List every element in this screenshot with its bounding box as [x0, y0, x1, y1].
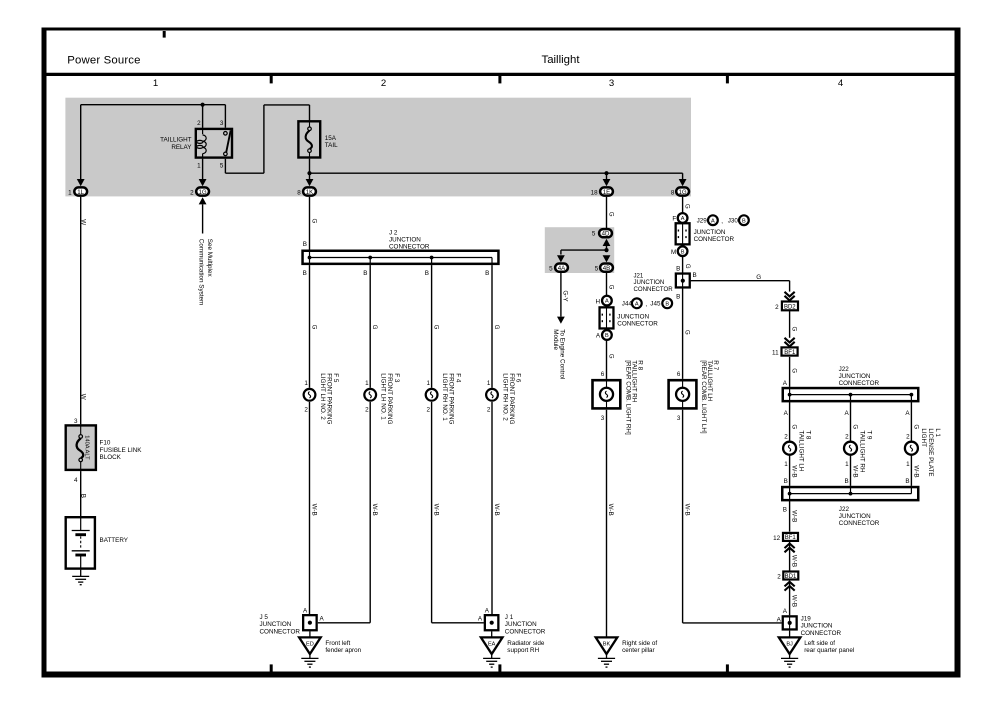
pin 6 label of R8	[601, 371, 605, 378]
svg-text:BJ: BJ	[786, 642, 793, 648]
svg-text:B: B	[676, 294, 680, 301]
fusible link element	[77, 424, 84, 471]
wire: BF1 to J22	[789, 357, 791, 387]
svg-text:G: G	[310, 219, 317, 224]
label: wire color G below 4B	[607, 285, 614, 290]
label: pin A under J22 at T9	[844, 410, 849, 417]
junction connector J19 box	[783, 615, 797, 630]
svg-text:CONNECTOR: CONNECTOR	[617, 321, 658, 328]
svg-text:See Multiplex: See Multiplex	[206, 239, 213, 278]
svg-text:1G: 1G	[679, 189, 687, 196]
label: J21 JUNCTION CONNECTOR	[634, 272, 674, 293]
svg-text:18: 18	[591, 189, 599, 196]
svg-text:140A ALT: 140A ALT	[84, 435, 90, 460]
label: J5 pin A right	[320, 616, 325, 623]
svg-text:M: M	[671, 249, 676, 256]
pin 1 label of F 3	[365, 380, 369, 387]
svg-text:15A: 15A	[325, 135, 337, 142]
svg-text:fender apron: fender apron	[325, 647, 361, 654]
svg-text:B: B	[303, 270, 307, 277]
label: J1 pin A top	[485, 607, 490, 614]
label: wire color B under J2 at x=492.0	[485, 270, 489, 277]
wire: J2 to front parking light F 4	[431, 265, 433, 388]
relay: TAILLIGHT RELAY box	[196, 129, 232, 158]
svg-text:,: ,	[721, 218, 723, 225]
svg-text:Taillight: Taillight	[542, 54, 581, 66]
label: wire color G on horizontal	[756, 274, 761, 281]
svg-text:W: W	[79, 394, 86, 400]
svg-text:CONNECTOR: CONNECTOR	[801, 630, 842, 637]
svg-text:JUNCTION: JUNCTION	[505, 621, 537, 628]
svg-text:B: B	[905, 478, 909, 485]
pin 2 label of F 3	[365, 407, 369, 414]
lamp F3 front parking light	[364, 389, 376, 401]
pin 3 label of R8	[601, 415, 605, 422]
label: wire color W-B below lower J22	[790, 510, 797, 522]
svg-text:2: 2	[365, 407, 369, 414]
wire: drop to connector 1E	[603, 173, 611, 186]
svg-text:4D: 4D	[602, 230, 610, 237]
svg-text:1: 1	[365, 380, 369, 387]
label: wire color W-B of R7	[683, 504, 690, 516]
connector BD1 pin 2	[777, 572, 798, 581]
connector 4D pin 5	[592, 229, 612, 238]
svg-text:3: 3	[220, 120, 224, 127]
svg-text:B: B	[844, 478, 848, 485]
lamp F4 front parking light	[426, 389, 438, 401]
svg-text:2: 2	[784, 433, 788, 440]
svg-text:2: 2	[777, 574, 781, 581]
label: L1 text	[920, 428, 941, 476]
battery symbol	[72, 516, 90, 570]
wire: 1K to J2 junction connector	[309, 197, 311, 250]
label: J19 pin A left	[777, 616, 782, 623]
node: junction dot below fuse	[307, 171, 311, 175]
pin 1 label of T8	[784, 461, 788, 468]
svg-text:B: B	[79, 494, 86, 498]
svg-text:J30: J30	[728, 218, 739, 225]
lamp R7 taillight LH box	[669, 380, 697, 408]
label: pin B above lower J22 at T8	[784, 478, 788, 485]
lamp F5 front parking light	[304, 389, 316, 401]
svg-text:W-B: W-B	[790, 510, 797, 522]
svg-text:JUNCTION: JUNCTION	[694, 229, 726, 236]
svg-text:G: G	[371, 325, 378, 330]
wire: J1 to ground	[491, 631, 493, 637]
label: pin B above lower J22 at T9	[844, 478, 848, 485]
svg-text:1G: 1G	[199, 189, 207, 196]
wire: into 4B	[603, 255, 611, 262]
wire: relay pin 3 feed	[224, 105, 226, 128]
svg-text:H: H	[596, 298, 601, 305]
label: wire color G at L1	[912, 424, 919, 429]
svg-text:1: 1	[153, 78, 158, 89]
svg-text:8: 8	[297, 189, 301, 196]
svg-text:W-B: W-B	[683, 504, 690, 516]
label: 140A ALT rotated	[84, 435, 90, 460]
svg-text:Right side of: Right side of	[622, 640, 657, 647]
label: R 7 TAILLIGHT LH REAR COMB LIGHT LH	[700, 360, 719, 434]
svg-text:W-B: W-B	[790, 595, 797, 607]
label: wire color W-B at x=492.0	[493, 504, 500, 516]
svg-text:G: G	[607, 354, 614, 359]
svg-text:LIGHT LH NO. 1: LIGHT LH NO. 1	[380, 373, 387, 420]
svg-text:5: 5	[220, 163, 224, 170]
label: F 4 FRONT PARKING LIGHT RH NO. 1	[441, 373, 461, 424]
label: wire color B under J2 at x=431.6	[425, 270, 429, 277]
svg-text:FUSIBLE LINK: FUSIBLE LINK	[100, 447, 143, 454]
svg-text:Radiator side: Radiator side	[507, 640, 545, 647]
svg-text:G: G	[493, 325, 500, 330]
pin 1 label of L1	[906, 461, 910, 468]
node: J22 lower dot 2	[849, 492, 853, 496]
svg-text:B: B	[783, 506, 787, 513]
label: wire color B	[79, 494, 86, 498]
pin 2 label of F 6	[487, 407, 491, 414]
connector circle A pin H	[596, 296, 612, 306]
label: wire color G below BD2	[791, 327, 798, 332]
pin 2 label	[197, 120, 201, 127]
label: wire color G above 4D	[607, 212, 614, 217]
label: wire color G at x=370.2	[371, 325, 378, 330]
svg-text:BATTERY: BATTERY	[100, 537, 129, 544]
label: 15A TAIL	[325, 135, 338, 149]
label: J 2 JUNCTION CONNECTOR	[389, 229, 430, 250]
svg-text:5: 5	[549, 265, 553, 272]
svg-text:B: B	[742, 218, 746, 224]
svg-text:J22: J22	[839, 506, 850, 513]
svg-text:J 5: J 5	[260, 614, 269, 621]
ground EA	[481, 637, 503, 667]
connector 1L pin 1	[68, 187, 87, 196]
pin 2 label of L1	[906, 433, 910, 440]
wire: R7 down and across to J19	[683, 410, 782, 623]
label: pin A under J22 at L1	[905, 410, 910, 417]
svg-text:4: 4	[74, 477, 78, 484]
label: JUNCTION CONNECTOR for J29	[694, 229, 735, 243]
svg-text:5: 5	[595, 265, 599, 272]
label: pin B below lower J22	[783, 506, 787, 513]
wire: J21 across to BD2 drop	[691, 281, 790, 292]
label: JUNCTION CONNECTOR for J44	[617, 313, 658, 327]
label: J1 pin A left	[478, 616, 483, 623]
svg-text:G: G	[756, 274, 761, 281]
svg-text:CONNECTOR: CONNECTOR	[839, 380, 880, 387]
wire: lamp T9 to lower J22	[850, 455, 852, 486]
svg-text:Communication System: Communication System	[197, 239, 204, 305]
label: wire color W-B at T9	[851, 465, 858, 477]
wire: F3 down and across to J5	[318, 402, 370, 623]
svg-text:CONNECTOR: CONNECTOR	[694, 236, 735, 243]
svg-text:F10: F10	[100, 439, 111, 446]
svg-text:J 1: J 1	[505, 614, 514, 621]
svg-text:1: 1	[845, 461, 849, 468]
wire: relay pin5 to fuse routing	[225, 105, 309, 173]
label: J22 JUNCTION CONNECTOR upper	[839, 366, 880, 387]
wire: BF1 to BD1 with up chevrons	[785, 542, 795, 571]
label: See Multiplex Communication System	[197, 239, 213, 305]
svg-text:2: 2	[426, 407, 430, 414]
wire: F6 down to J1	[491, 402, 493, 614]
label: wire color W lower	[79, 394, 86, 400]
wire: 1E to 4D	[606, 197, 608, 228]
connector circle B pin A	[596, 330, 612, 340]
svg-text:3: 3	[601, 415, 605, 422]
svg-text:J22: J22	[839, 366, 850, 373]
svg-text:A: A	[711, 218, 715, 224]
ground ED	[299, 637, 321, 667]
label: F 5 FRONT PARKING LIGHT LH NO. 2	[319, 373, 339, 424]
svg-text:JUNCTION: JUNCTION	[389, 237, 421, 244]
wire: chevrons into BF1	[785, 338, 795, 347]
pin 3 label	[220, 120, 224, 127]
pin 6 label of R7	[677, 371, 681, 378]
junction connector J1 box	[485, 615, 499, 630]
lamp T9	[844, 442, 857, 455]
label: wire color G at T8	[791, 424, 798, 429]
label: wire color W-B at L1	[912, 465, 919, 477]
connector BD2 pin 2	[775, 302, 798, 311]
svg-text:A: A	[681, 216, 685, 222]
svg-text:B: B	[485, 270, 489, 277]
wire: relay pin1 to connector 1G	[199, 159, 207, 186]
label: wire color W-B of R8	[607, 504, 614, 516]
ground: battery ground	[72, 570, 89, 585]
svg-text:LIGHT RH NO. 1: LIGHT RH NO. 1	[441, 373, 448, 421]
node: J22 upper dot 2	[849, 393, 853, 397]
label: wire color G above J21 rotated	[684, 264, 691, 269]
svg-text:W-B: W-B	[790, 555, 797, 567]
label: wire color B above J21	[676, 265, 680, 272]
label: pin A above J19	[783, 608, 788, 615]
wire: J29 to J21	[682, 257, 684, 273]
label: J44 A , J45 B references	[622, 298, 672, 308]
svg-text:support RH: support RH	[507, 647, 539, 654]
connector 4A pin 5	[549, 264, 568, 273]
label: wire color W-B above J19	[790, 595, 797, 607]
wire: J22 to lamp T9	[850, 402, 852, 441]
svg-text:G-Y: G-Y	[562, 290, 569, 302]
wire: fusible link to battery	[80, 471, 82, 516]
label: wire color B under J2 at x=370.2	[363, 270, 367, 277]
junction connector J22 lower box	[782, 486, 918, 502]
connector 1K pin 8	[297, 187, 316, 196]
wire: J2 to front parking light F 6	[491, 265, 493, 388]
lamp T8	[783, 442, 796, 455]
svg-text:F: F	[672, 216, 676, 223]
wire: node to 4D with up arrow	[603, 239, 611, 250]
pin 3 label of R7	[677, 415, 681, 422]
label: wire color G below 1G	[684, 204, 691, 209]
svg-text:1: 1	[426, 380, 430, 387]
label: J29 A , J30 B references	[697, 215, 749, 225]
label: Left side of rear quarter panel	[804, 640, 854, 654]
svg-text:1: 1	[304, 380, 308, 387]
svg-text:BF1: BF1	[784, 350, 796, 356]
svg-text:B: B	[425, 270, 429, 277]
label: wire color G below BF1	[791, 368, 798, 373]
svg-text:G: G	[851, 424, 858, 429]
label: wire color W-B at x=370.2	[371, 504, 378, 516]
node: J22 upper dot 3	[910, 393, 914, 397]
wire: J22 to lamp L1	[910, 402, 912, 441]
svg-text:G: G	[912, 424, 919, 429]
label: wire color W upper	[79, 219, 86, 225]
svg-text:1E: 1E	[603, 189, 610, 196]
connector 4B pin 5	[595, 264, 613, 273]
label: T9 text	[859, 430, 873, 473]
svg-text:5: 5	[592, 231, 596, 238]
svg-text:[REAR COMB. LIGHT RH]: [REAR COMB. LIGHT RH]	[625, 360, 632, 435]
label: wire color W-B at x=309.5	[310, 504, 317, 516]
svg-text:2: 2	[906, 433, 910, 440]
svg-text:CONNECTOR: CONNECTOR	[389, 244, 430, 251]
svg-text:2: 2	[197, 120, 201, 127]
svg-text:W-B: W-B	[851, 465, 858, 477]
svg-text:CONNECTOR: CONNECTOR	[260, 629, 301, 636]
svg-text:1K: 1K	[306, 189, 313, 196]
connector circle A pin F	[672, 213, 687, 223]
svg-text:B: B	[784, 478, 788, 485]
svg-text:W-B: W-B	[371, 504, 378, 516]
label: wire color B under J2 at x=309.5	[303, 270, 307, 277]
svg-text:ED: ED	[306, 642, 314, 648]
svg-text:BK: BK	[603, 642, 611, 648]
svg-text:TAIL: TAIL	[325, 142, 338, 149]
svg-text:1: 1	[487, 380, 491, 387]
svg-text:[REAR COMB. LIGHT LH]: [REAR COMB. LIGHT LH]	[700, 360, 707, 434]
svg-text:8: 8	[671, 189, 675, 196]
lamp L1	[905, 442, 918, 455]
relay coil	[197, 128, 207, 159]
svg-text:G: G	[310, 325, 317, 330]
svg-text:CONNECTOR: CONNECTOR	[634, 286, 674, 293]
label: wire color G at x=492.0	[493, 325, 500, 330]
svg-text:4B: 4B	[603, 265, 610, 272]
svg-text:JUNCTION: JUNCTION	[617, 313, 649, 320]
svg-text:2: 2	[304, 407, 308, 414]
wire: J5 to ground	[309, 631, 311, 637]
svg-text:W: W	[79, 219, 86, 225]
label: pin B above lower J22 at L1	[905, 478, 909, 485]
pin 2 label of T9	[845, 433, 849, 440]
label: J19 JUNCTION CONNECTOR	[801, 615, 842, 637]
wire: multiplex input arrow into 1G	[199, 197, 207, 233]
pin 3 label of F10	[74, 418, 78, 425]
svg-text:J45: J45	[650, 300, 661, 307]
wire: 1G to junction connector J29	[682, 197, 684, 213]
node: junction dot at relay coil feed	[201, 103, 205, 107]
svg-text:G: G	[791, 424, 798, 429]
svg-text:LIGHT: LIGHT	[920, 428, 927, 447]
label: wire color B below J21	[676, 294, 680, 301]
label: wire color G at T9	[851, 424, 858, 429]
label: Front left fender apron	[325, 640, 361, 654]
wire: BD1 to J19 with up chevrons	[785, 581, 795, 615]
wire: branch to 4A	[557, 250, 607, 262]
connector 1G pin 8	[671, 187, 689, 196]
wire: battery feed horizontal bus	[81, 104, 226, 106]
svg-text:4: 4	[838, 78, 844, 89]
label: J 5 JUNCTION CONNECTOR	[260, 614, 301, 636]
node: J2 dot 3	[430, 256, 434, 260]
svg-text:J29: J29	[697, 218, 708, 225]
wire: F4 down and across to J1	[432, 402, 484, 623]
svg-text:BF1: BF1	[785, 535, 797, 541]
wire: BD2 to BF1	[789, 311, 791, 338]
svg-text:L 1: L 1	[934, 428, 941, 437]
svg-text:center pillar: center pillar	[622, 647, 655, 654]
svg-text:G: G	[607, 212, 614, 217]
wire: 4A to engine control module arrow	[557, 273, 565, 324]
svg-text:2: 2	[775, 304, 779, 311]
label: F 6 FRONT PARKING LIGHT RH NO. 2	[501, 373, 521, 424]
svg-text:1: 1	[784, 461, 788, 468]
svg-text:6: 6	[677, 371, 681, 378]
wire: fuse output drop to 1K	[306, 159, 314, 187]
svg-text:W-B: W-B	[791, 465, 798, 477]
pin 1 label of F 4	[426, 380, 430, 387]
label: wire color W-B at T8	[791, 465, 798, 477]
connector BF1 pin 11	[772, 347, 798, 356]
lamp F6 front parking light	[486, 389, 498, 401]
node: junction dot at 1E branch	[604, 171, 608, 175]
label: J22 JUNCTION CONNECTOR lower	[839, 506, 880, 527]
label: B right of J21	[693, 272, 697, 279]
pin 4 label of F10	[74, 477, 78, 484]
svg-text:JUNCTION: JUNCTION	[839, 373, 871, 380]
relay switch contacts	[224, 130, 231, 155]
wire: lower J22 to BF1	[789, 501, 791, 531]
pin 1 label of F 5	[304, 380, 308, 387]
svg-text:rear quarter panel: rear quarter panel	[804, 647, 854, 654]
node: J2 dot 2	[368, 256, 372, 260]
svg-text:LICENSE PLATE: LICENSE PLATE	[927, 428, 934, 476]
label: J 1 JUNCTION CONNECTOR	[505, 614, 546, 636]
label: wire color G at x=431.6	[433, 325, 440, 330]
junction connector J44 box	[600, 306, 614, 329]
wire: J2 to front parking light F 5	[309, 265, 311, 388]
pin 2 label of T8	[784, 433, 788, 440]
label: F10 FUSIBLE LINK BLOCK	[100, 439, 143, 461]
svg-text:A: A	[635, 301, 639, 307]
wire: R8 to ground BK	[606, 410, 608, 638]
svg-text:W-B: W-B	[432, 504, 439, 516]
svg-text:1L: 1L	[77, 189, 84, 196]
label: wire color W-B at x=431.6	[432, 504, 439, 516]
connector 1G pin 2	[190, 187, 209, 196]
lamp R8 taillight RH box	[593, 380, 621, 408]
pin 1 label of T9	[845, 461, 849, 468]
svg-text:B: B	[605, 333, 609, 339]
connector circle B pin M	[671, 246, 688, 256]
svg-text:W-B: W-B	[310, 504, 317, 516]
label: J5 pin A top	[303, 607, 308, 614]
label: wire color G	[310, 219, 317, 224]
svg-text:2: 2	[845, 433, 849, 440]
svg-text:Module: Module	[552, 329, 559, 350]
junction connector J21 box	[676, 273, 690, 289]
svg-text:1: 1	[68, 189, 72, 196]
svg-text:TAILLIGHT RH: TAILLIGHT RH	[859, 430, 866, 473]
svg-text:J19: J19	[801, 615, 812, 622]
svg-text:G: G	[684, 330, 691, 335]
svg-text:JUNCTION: JUNCTION	[839, 513, 871, 520]
pin 1 label of F 6	[487, 380, 491, 387]
wire: F5 down to J5	[309, 402, 311, 614]
wire: taillight feed bus to right	[310, 172, 683, 174]
wire: 4B to junction connector circle A	[606, 273, 608, 295]
